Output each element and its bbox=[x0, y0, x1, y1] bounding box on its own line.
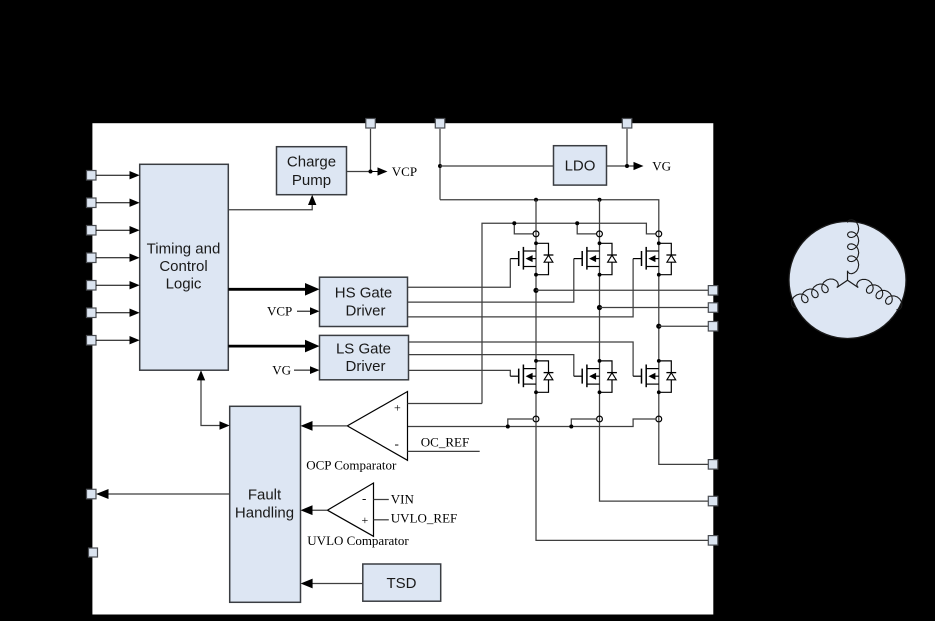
block HS Gate Driver bbox=[320, 277, 408, 326]
svg-text:Fault: Fault bbox=[248, 487, 282, 504]
block Charge Pump bbox=[277, 147, 347, 195]
thick bus Timing to HS Gate Driver bbox=[228, 283, 319, 296]
wire phase C column bbox=[658, 242, 660, 422]
pin SHB (right) bbox=[708, 303, 718, 313]
pin IN6 (left) bbox=[87, 308, 140, 318]
wire phase A column bbox=[535, 200, 537, 422]
wire phase A to SHA pin bbox=[533, 288, 708, 293]
svg-text:TSD: TSD bbox=[387, 575, 417, 592]
wire LS A to SLA pin bbox=[536, 422, 709, 541]
wire LS out1 to FET C gate bbox=[409, 342, 634, 376]
pin SLB (right) bbox=[708, 496, 718, 506]
svg-text:LDO: LDO bbox=[565, 158, 596, 175]
svg-text:LS Gate: LS Gate bbox=[336, 340, 391, 357]
link Timing-Fault double arrow bbox=[197, 370, 230, 430]
wire LS out2 to FET B gate bbox=[409, 355, 574, 377]
pin nFAULT (left) with arrow out bbox=[87, 489, 230, 499]
node circle HS C bbox=[656, 231, 662, 237]
pin SLA (right) bbox=[708, 536, 718, 546]
node circle LS B bbox=[597, 416, 603, 422]
pin IN5 (left) bbox=[87, 281, 140, 291]
svg-text:HS Gate: HS Gate bbox=[335, 284, 393, 301]
wire phase C to SHC pin bbox=[656, 324, 708, 329]
svg-text:Driver: Driver bbox=[346, 303, 386, 320]
svg-text:OCP Comparator: OCP Comparator bbox=[306, 458, 397, 473]
wire OCP output to Fault bbox=[301, 421, 348, 431]
svg-text:VIN: VIN bbox=[391, 492, 415, 507]
wire phase B column bbox=[599, 200, 601, 422]
transistor Q6 LS C bbox=[633, 359, 676, 394]
wire LDO output to VG bbox=[607, 158, 672, 173]
thick bus Timing to LS Gate Driver bbox=[228, 340, 319, 353]
wire HS out3 to FET C gate bbox=[408, 259, 634, 317]
wire phase B to SHB pin bbox=[597, 305, 709, 310]
pin IN4 (left) bbox=[87, 253, 140, 263]
svg-text:Pump: Pump bbox=[292, 172, 331, 189]
transistor Q4 LS A bbox=[510, 359, 553, 394]
wire Charge Pump output to VCP bbox=[347, 164, 418, 179]
wire Timing to Charge Pump with up arrow bbox=[228, 195, 316, 210]
node circle HS A bbox=[533, 231, 539, 237]
label VG into LS driver bbox=[272, 362, 319, 377]
block Timing and Control Logic bbox=[140, 164, 229, 370]
svg-text:Driver: Driver bbox=[346, 358, 386, 375]
svg-text:VG: VG bbox=[272, 362, 291, 377]
motor M symbol bbox=[789, 220, 906, 339]
label VCP into HS driver bbox=[267, 303, 320, 318]
svg-text:Timing and: Timing and bbox=[147, 240, 221, 257]
transistor Q5 LS B bbox=[574, 359, 617, 394]
wire VM top rail bbox=[440, 198, 659, 242]
wire OCP plus input bbox=[408, 403, 483, 405]
chip body white rectangle bbox=[92, 123, 713, 614]
pin SHA (right) bbox=[708, 286, 718, 296]
wire VM to LDO input bbox=[438, 164, 554, 168]
pin IN3 (left) bbox=[87, 226, 140, 236]
transistor Q3 HS C bbox=[633, 241, 676, 276]
block LDO bbox=[554, 146, 607, 185]
wire LS B to SLB pin bbox=[600, 422, 709, 501]
wire OCP minus input OC_REF bbox=[408, 435, 480, 452]
svg-text:VCP: VCP bbox=[392, 164, 417, 179]
wire HS drain sense rail bbox=[482, 221, 656, 403]
node circle LS A bbox=[533, 416, 539, 422]
svg-text:UVLO_REF: UVLO_REF bbox=[391, 511, 457, 526]
svg-text:+: + bbox=[362, 513, 369, 527]
pin VG (top) bbox=[622, 119, 632, 167]
transistor Q1 HS A bbox=[510, 241, 553, 276]
svg-text:Logic: Logic bbox=[166, 275, 202, 292]
wire UVLO plus input UVLO_REF bbox=[374, 511, 458, 526]
wire HS out2 to FET B gate bbox=[408, 259, 574, 303]
svg-text:+: + bbox=[394, 401, 401, 415]
svg-text:UVLO Comparator: UVLO Comparator bbox=[307, 533, 409, 548]
transistor Q2 HS B bbox=[574, 241, 617, 276]
node circle HS B bbox=[597, 231, 603, 237]
pin VM (top) bbox=[435, 119, 445, 200]
wire UVLO output to Fault bbox=[301, 505, 328, 515]
block Fault Handling bbox=[230, 406, 301, 602]
pin SHC (right) bbox=[708, 322, 718, 332]
wire TSD to Fault bbox=[301, 579, 363, 589]
pin SLC (right) bbox=[708, 460, 718, 470]
svg-text:Control: Control bbox=[159, 258, 207, 275]
svg-text:-: - bbox=[395, 436, 399, 451]
op-amp OCP comparator bbox=[347, 392, 407, 461]
pin IN1 (left) bbox=[87, 171, 140, 181]
svg-text:OC_REF: OC_REF bbox=[421, 435, 469, 450]
wire LS C to SLC pin bbox=[659, 422, 709, 465]
pin GND (left, unconnected) bbox=[89, 548, 98, 557]
wire HS out1 to FET A gate bbox=[408, 259, 511, 288]
pin IN7 (left) bbox=[87, 336, 140, 346]
block TSD bbox=[363, 564, 441, 601]
svg-text:-: - bbox=[362, 491, 366, 506]
svg-text:Charge: Charge bbox=[287, 154, 336, 171]
node circle LS C bbox=[656, 416, 662, 422]
op-amp UVLO comparator bbox=[327, 483, 373, 536]
wire LS source sense rail bbox=[408, 419, 657, 429]
pin CP (top) bbox=[366, 119, 376, 172]
svg-text:VG: VG bbox=[652, 158, 671, 173]
svg-text:Handling: Handling bbox=[235, 504, 294, 521]
wire UVLO minus input VIN bbox=[374, 492, 415, 507]
svg-text:VCP: VCP bbox=[267, 303, 292, 318]
wire LS out3 to FET A gate bbox=[409, 370, 511, 376]
pin IN2 (left) bbox=[87, 198, 140, 208]
block LS Gate Driver bbox=[320, 335, 409, 379]
